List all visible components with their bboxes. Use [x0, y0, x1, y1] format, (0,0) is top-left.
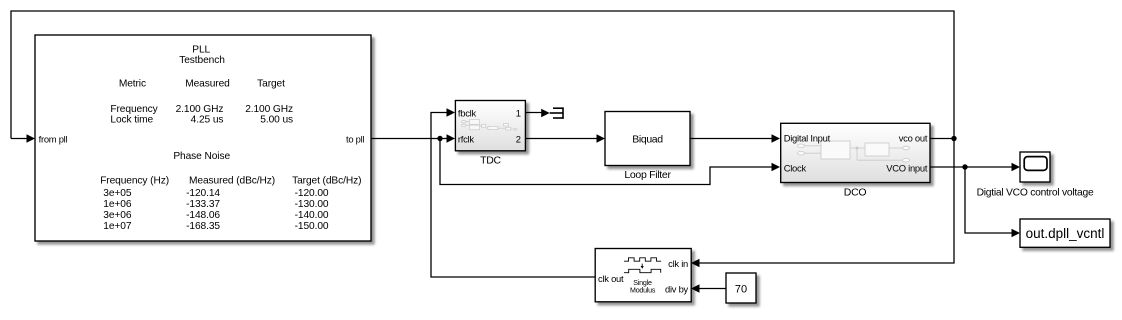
svg-text:Target (dBc/Hz): Target (dBc/Hz) [292, 176, 361, 187]
svg-text:2: 2 [516, 134, 521, 145]
svg-text:Metric: Metric [119, 79, 146, 90]
svg-text:to pll: to pll [346, 133, 364, 144]
svg-text:Loop Filter: Loop Filter [624, 169, 671, 181]
svg-text:Testbench: Testbench [179, 55, 225, 66]
svg-text:fbclk: fbclk [458, 108, 477, 119]
svg-text:Frequency (Hz): Frequency (Hz) [100, 176, 169, 187]
svg-text:rfclk: rfclk [458, 134, 474, 145]
svg-text:Phase Noise: Phase Noise [173, 151, 230, 162]
svg-text:Target: Target [257, 79, 285, 90]
svg-text:VCO input: VCO input [886, 162, 928, 173]
svg-text:-120.14: -120.14 [186, 188, 220, 199]
svg-text:clk in: clk in [668, 258, 688, 269]
svg-text:2.100 GHz: 2.100 GHz [176, 104, 224, 115]
svg-text:Digital Input: Digital Input [784, 133, 831, 144]
svg-text:Clock: Clock [784, 162, 807, 173]
svg-text:Measured (dBc/Hz): Measured (dBc/Hz) [189, 176, 275, 187]
svg-text:70: 70 [735, 283, 747, 295]
svg-text:Lock time: Lock time [110, 114, 153, 125]
svg-text:1e+07: 1e+07 [103, 221, 132, 232]
svg-text:1: 1 [516, 108, 521, 119]
svg-text:Measured: Measured [185, 79, 230, 90]
svg-text:Frequency: Frequency [110, 104, 158, 115]
svg-text:Digtial VCO control voltage: Digtial VCO control voltage [977, 188, 1094, 199]
svg-text:TDC: TDC [480, 155, 501, 167]
svg-text:-130.00: -130.00 [295, 199, 329, 210]
svg-text:Modulus: Modulus [630, 287, 656, 295]
svg-text:2.100 GHz: 2.100 GHz [245, 104, 293, 115]
svg-text:div by: div by [665, 283, 689, 294]
svg-text:clk out: clk out [598, 273, 624, 284]
svg-text:3e+06: 3e+06 [103, 210, 132, 221]
svg-text:4.25 us: 4.25 us [191, 114, 224, 125]
svg-text:-140.00: -140.00 [295, 210, 329, 221]
svg-text:out.dpll_vcntl: out.dpll_vcntl [1026, 226, 1105, 241]
svg-text:PLL: PLL [192, 44, 210, 55]
svg-text:-150.00: -150.00 [295, 221, 329, 232]
svg-text:1e+06: 1e+06 [103, 199, 132, 210]
svg-text:3e+05: 3e+05 [103, 188, 132, 199]
svg-text:-133.37: -133.37 [186, 199, 220, 210]
svg-text:5.00 us: 5.00 us [260, 114, 293, 125]
svg-text:-168.35: -168.35 [186, 221, 220, 232]
svg-text:from pll: from pll [39, 133, 68, 144]
svg-text:-120.00: -120.00 [295, 188, 329, 199]
svg-text:-148.06: -148.06 [186, 210, 220, 221]
svg-text:DCO: DCO [844, 187, 867, 199]
svg-text:vco out: vco out [899, 133, 928, 144]
svg-text:Biquad: Biquad [632, 134, 663, 146]
